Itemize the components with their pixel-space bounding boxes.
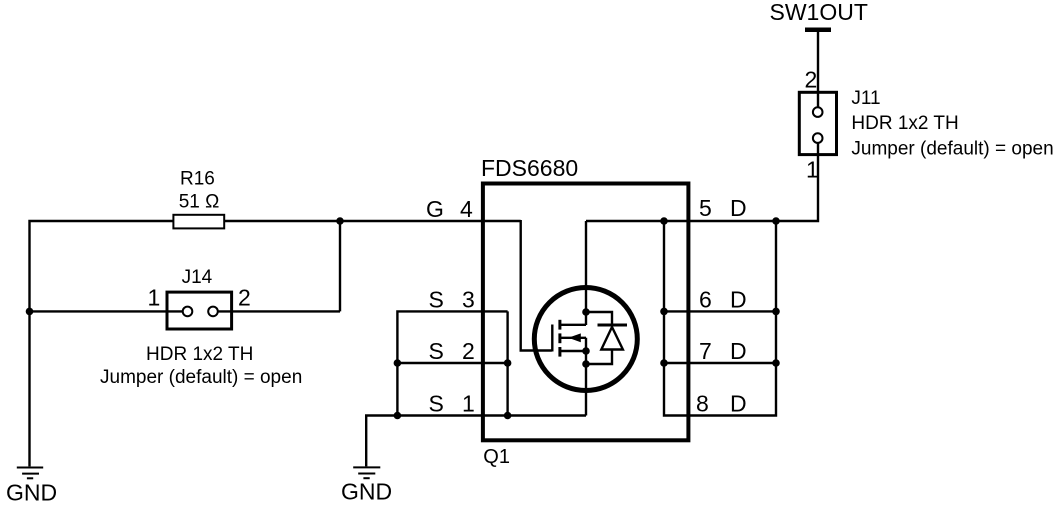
svg-text:5: 5 — [699, 195, 712, 221]
svg-text:51 Ω: 51 Ω — [179, 191, 220, 212]
transistor Q1 body stub — [561, 337, 586, 339]
node: junction internal bus / pin5 — [660, 217, 668, 225]
svg-text:J14: J14 — [182, 267, 213, 288]
net port SW1OUT bar — [805, 27, 831, 32]
transistor Q1 channel bar source segment — [558, 347, 561, 357]
node: junction internal S bus / S1 — [504, 412, 512, 420]
diode triangle — [601, 327, 623, 350]
wire: J14 pin2 lead — [213, 310, 340, 312]
transistor Q1 channel bar body segment — [558, 333, 561, 343]
node: junction gate rail / J14 branch — [336, 217, 344, 225]
wire: vertical from gate rail down to J14 row — [339, 221, 341, 311]
svg-text:2: 2 — [462, 338, 475, 364]
jumper J11 pin 2 circle — [813, 107, 823, 117]
ground symbol left — [17, 468, 43, 479]
node: junction internal bus / pin7 — [660, 359, 668, 367]
svg-text:S: S — [429, 338, 444, 364]
svg-text:R16: R16 — [180, 169, 215, 190]
svg-text:S: S — [429, 286, 444, 312]
svg-text:8: 8 — [696, 391, 709, 417]
transistor Q1 MOSFET drain vertical — [585, 221, 587, 325]
wire: gate rail from left bus through R16 to inside Q1 — [30, 221, 521, 466]
node: junction left bus / J14 pin1 — [26, 308, 34, 316]
jumper J11 box — [799, 92, 836, 154]
svg-text:1: 1 — [806, 156, 819, 182]
ground symbol middle — [353, 467, 380, 478]
svg-text:D: D — [730, 286, 747, 312]
transistor Q1 channel bar drain segment — [558, 320, 561, 330]
svg-text:4: 4 — [460, 196, 473, 222]
jumper J14 pin 1 circle — [183, 307, 193, 317]
wire: J14 pin1 lead — [30, 310, 188, 312]
node: source stub junction — [582, 347, 590, 355]
svg-text:D: D — [730, 195, 747, 221]
svg-text:HDR 1x2 TH: HDR 1x2 TH — [851, 113, 958, 134]
svg-text:D: D — [730, 338, 747, 364]
svg-text:Jumper (default) = open: Jumper (default) = open — [851, 139, 1053, 160]
node: junction outer bus / pin5 — [772, 217, 780, 225]
transistor Q1 MOSFET circle envelope — [534, 288, 637, 391]
wire: internal S bus inside Q1 — [506, 311, 508, 415]
svg-text:2: 2 — [238, 285, 251, 311]
svg-text:1: 1 — [462, 391, 475, 417]
svg-text:D: D — [730, 391, 747, 417]
svg-text:GND: GND — [6, 480, 57, 506]
wire: pin 6 row — [664, 310, 776, 312]
diode cathode bar — [598, 324, 628, 327]
node: junction outer bus / pin7 — [772, 359, 780, 367]
jumper J14 pin 2 circle — [208, 307, 218, 317]
svg-text:3: 3 — [462, 286, 475, 312]
wire: pin 5 rail from drain line up to J11 — [586, 138, 818, 221]
svg-text:GND: GND — [341, 479, 392, 505]
node: junction internal bus / pin6 — [660, 308, 668, 316]
wire: pin 7 row — [664, 362, 776, 364]
node: junction outer bus / pin6 — [772, 308, 780, 316]
svg-text:G: G — [426, 196, 444, 222]
node: junction S bus / S1 / GND branch — [394, 412, 402, 420]
svg-text:J11: J11 — [851, 88, 880, 109]
svg-text:SW1OUT: SW1OUT — [770, 0, 868, 25]
transistor Q1 source stub — [561, 350, 586, 352]
transistor Q1 body arrow — [568, 333, 581, 342]
svg-text:Q1: Q1 — [483, 446, 510, 468]
svg-text:FDS6680: FDS6680 — [481, 155, 578, 181]
transistor Q1 gate bar — [551, 325, 553, 352]
node: anode junction — [582, 360, 590, 368]
resistor R16 — [173, 215, 224, 229]
transistor Q1 MOSFET source vertical — [585, 338, 587, 416]
jumper J14 box — [167, 292, 232, 329]
wire: S2 row — [397, 362, 507, 364]
svg-text:HDR 1x2 TH: HDR 1x2 TH — [146, 344, 253, 365]
svg-text:Jumper (default) = open: Jumper (default) = open — [100, 367, 302, 388]
node: junction internal S bus / S2 — [504, 359, 512, 367]
wire: S1 row and middle GND branch — [366, 416, 586, 467]
wire: S pin bus left of Q1 and S3 row — [397, 311, 507, 415]
jumper J11 pin 1 circle — [813, 133, 823, 143]
wire: gate internal routing to gate bar — [521, 220, 552, 351]
svg-text:7: 7 — [699, 338, 712, 364]
wire: body diode cathode branch — [586, 312, 612, 327]
svg-text:6: 6 — [699, 286, 712, 312]
svg-text:1: 1 — [148, 285, 161, 311]
svg-text:S: S — [429, 391, 444, 417]
transistor Q1 drain stub — [561, 324, 586, 326]
svg-text:2: 2 — [805, 67, 818, 93]
wire: J11 top lead from SW1OUT — [817, 30, 819, 113]
IC body FDS6680 box — [483, 184, 689, 441]
node: drain / cathode junction — [582, 308, 590, 316]
node: junction S bus / S2 — [394, 359, 402, 367]
wire: body diode anode branch — [586, 349, 612, 364]
wire: internal drain bus, pin8 row, outer drain bus — [664, 221, 776, 416]
